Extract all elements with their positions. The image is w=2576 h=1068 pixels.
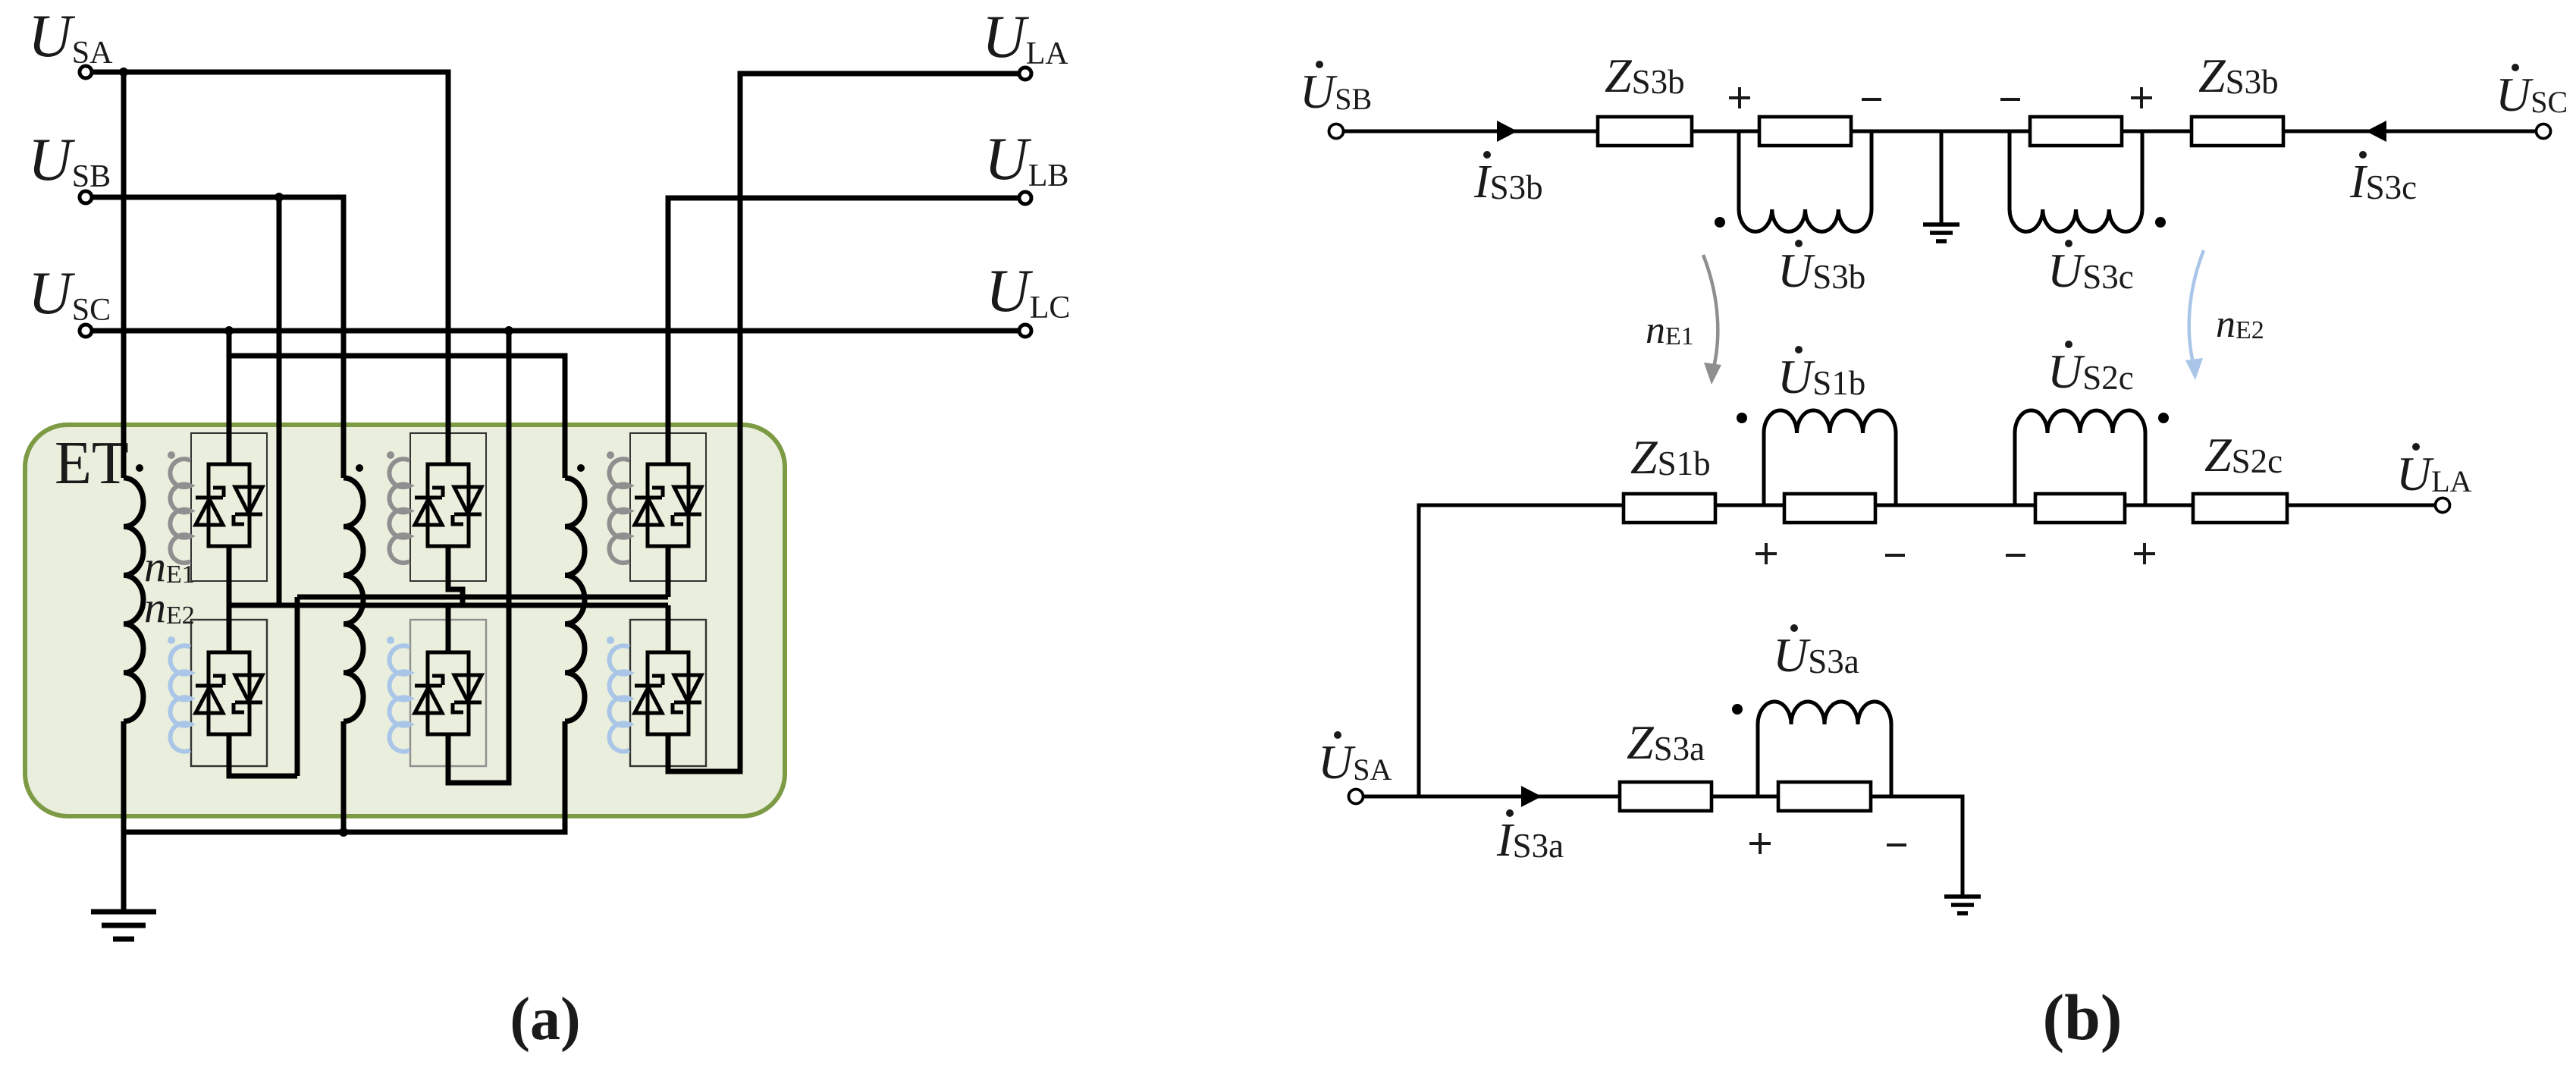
label USC (panel b) [2496,64,2568,121]
polarity sign minus ES3a [1887,843,1906,847]
transformer T3a secondary winding nE1 (gray) [609,459,629,563]
svg-text:USB: USB [28,127,111,194]
transformer T2a primary winding [344,478,363,721]
junction ground bus T2a [339,828,348,837]
label US3c [2047,240,2134,297]
inductor US3a winding [1758,702,1891,796]
source element ES3b box [1759,117,1851,146]
wire ES3c to ZS3b right [2122,130,2192,133]
coupling arrow nE2 [2185,250,2204,380]
source element ES3a box [1778,782,1871,811]
svg-text:US3c: US3c [2047,243,2134,297]
svg-text:ZS3a: ZS3a [1627,715,1705,769]
svg-text:US2c: US2c [2047,344,2134,398]
svg-text:IS3c: IS3c [2349,156,2417,208]
polarity dot nE2 T1a [168,636,175,644]
transformer T3a secondary winding nE2 (blue) [610,646,629,751]
transformer unit T2a lower module box [410,620,486,766]
terminal ULA (panel b) [2436,498,2450,513]
polarity dot US3c [2155,217,2166,228]
junction USA-primary [119,68,128,77]
terminal ULC [1019,325,1031,337]
terminal USC (panel b) [2537,124,2551,139]
wire USB to ZS3b [1344,130,1598,133]
source element ES3c box [2030,117,2122,146]
label IS3b [1473,151,1543,208]
svg-text:nE1: nE1 [1646,309,1694,352]
resistor ZS3a [1620,782,1712,811]
svg-text:nE2: nE2 [2216,303,2264,346]
terminal USA [80,66,92,78]
polarity sign minus ES3b [1862,98,1881,101]
svg-text:USA: USA [1318,735,1392,789]
transformer unit T3a lower module box [630,620,706,766]
polarity dot primary T2a [356,464,363,472]
inductor US3b winding [1739,131,1872,231]
terminal USB (panel b) [1329,124,1344,139]
polarity sign minus ES3c [2000,98,2020,101]
svg-text:IS3b: IS3b [1473,156,1543,208]
wire net ULA: load A riser from column 3 lower [668,74,1019,771]
inductor US2c winding [2015,410,2145,505]
wire ES1b to ES2c [1875,504,2035,507]
polarity dot primary T3a [577,464,585,472]
resistor ZS2c [2193,494,2287,523]
transformer T2a secondary winding nE1 (gray) [389,459,409,563]
current arrow IS3a [1521,786,1542,807]
label US3b [1777,240,1865,297]
ground symbol (panel b bottom) [1944,897,1981,913]
transformer T1a secondary winding nE1 (gray) [170,459,190,563]
svg-text:ZS2c: ZS2c [2204,428,2283,482]
terminal USA (panel b) [1349,790,1363,804]
wire net USC/ULC: source C through to load C [92,331,1019,783]
coupling arrow nE1 [1703,255,1721,385]
ET electronic transformer enclosure [25,425,785,816]
label IS3c [2349,151,2417,208]
wire ZS2c to ULA [2287,504,2436,507]
source element ES2c box [2035,494,2125,523]
polarity sign plus ES3b [1729,87,1750,108]
terminal ULA [1019,68,1031,80]
wire ZS3b to ES3b [1692,130,1759,133]
svg-text:ZS3b: ZS3b [1605,49,1685,102]
thyristor pair VT3 (upper, column 2) [415,464,482,546]
label USB (panel b) [1300,61,1372,118]
transformer T1a secondary winding nE2 (blue) [171,646,190,751]
wire USA to ZS3a [1363,795,1620,799]
svg-text:USC: USC [2496,68,2568,121]
label ULA (panel b) [2396,443,2472,501]
junction USC riser [504,326,513,335]
transformer unit T2a upper module box [410,433,486,581]
polarity dot nE1 T3a [607,451,614,459]
thyristor pair VT1 (upper, column 1) [196,464,262,546]
label US3a [1773,624,1859,682]
svg-text:USB: USB [1300,64,1372,118]
inductor US1b winding [1764,410,1896,505]
transformer unit T1a lower module box [191,620,267,766]
polarity dot nE1 T1a [168,451,175,459]
polarity dot US1b [1737,413,1747,423]
source element ES1b box [1784,494,1875,523]
polarity dot US3b [1715,217,1725,228]
wire ZS3a to ES3a [1712,795,1778,799]
svg-text:ULA: ULA [2396,447,2472,501]
wire riser USA to ZS1b [1419,505,1624,796]
thyristor pair VT2 (lower, column 1) [196,652,262,734]
label IS3a [1496,809,1564,866]
transformer T3a primary winding [565,478,585,721]
polarity sign plus ES3a [1749,833,1771,854]
svg-text:ULC: ULC [986,258,1070,325]
polarity dot nE2 T2a [387,636,394,644]
polarity sign minus ES1b [1885,554,1905,557]
polarity dot nE1 T2a [387,451,394,459]
svg-text:ZS1b: ZS1b [1630,430,1711,484]
terminal USC [80,325,92,337]
svg-text:ULB: ULB [984,126,1068,193]
terminal USB [80,191,92,203]
svg-text:ULA: ULA [982,4,1068,71]
ground symbol (panel a) [91,832,156,939]
wire net ULB: load B to thyristor column 3 [668,198,1019,464]
transformer T2a secondary winding nE2 (blue) [390,646,409,751]
inductor US3c winding [2010,131,2142,231]
wire ES3b to ground [1851,131,2030,223]
resistor ZS3b (left) [1598,117,1692,146]
label US1b [1777,346,1865,404]
current arrow IS3b [1497,121,1517,142]
terminal ULB [1019,192,1031,204]
svg-text:(a): (a) [510,986,580,1053]
wire ZS1b to ES1b [1715,504,1784,507]
svg-text:IS3a: IS3a [1496,815,1564,866]
svg-text:USA: USA [28,3,113,71]
label US2c [2047,341,2134,398]
thyristor pair VT6 (lower, column 3) [635,652,701,734]
transformer T1a primary winding [124,478,143,721]
svg-text:ET: ET [55,430,129,497]
polarity sign minus ES2c [2006,554,2025,557]
polarity dot US2c [2158,413,2169,423]
resistor ZS1b [1624,494,1715,523]
transformer unit T1a upper module box [191,433,267,581]
thyristor pair VT5 (upper, column 3) [635,464,701,546]
polarity dot primary T1a [136,464,143,472]
wire ground bus of ET primaries [124,721,565,832]
wire net USB: source B to primary T2a and lower bus [92,197,344,605]
wire bus A (inter-module link upper) [229,546,668,776]
wire ES2c to ZS2c [2125,504,2193,507]
current arrow IS3c [2366,121,2386,142]
svg-text:ZS3b: ZS3b [2198,49,2279,102]
resistor ZS3b (right) [2192,117,2283,146]
polarity sign plus ES2c [2134,543,2155,564]
junction USC column1 [224,326,234,335]
svg-text:US3b: US3b [1777,243,1865,297]
polarity sign plus ES1b [1756,543,1777,564]
svg-text:(b): (b) [2042,981,2122,1054]
wire net USA: source A to primary T1a and thyristor column 2 [92,72,448,478]
transformer unit T3a upper module box [630,433,706,581]
junction USB-bus [275,193,284,202]
svg-text:USC: USC [28,260,111,328]
wire bus B (inter-module link lower) [229,546,668,652]
ground symbol (panel b top) [1923,225,1959,241]
svg-text:US1b: US1b [1777,350,1865,404]
wire ZS3b right to USC [2283,130,2537,133]
polarity dot US3a [1732,704,1743,715]
thyristor pair VT4 (lower, column 2) [415,652,482,734]
label USA (panel b) [1318,731,1392,789]
wire ES3a to ground [1871,796,1963,895]
polarity sign plus ES3c [2131,87,2152,108]
svg-text:US3a: US3a [1773,628,1859,682]
polarity dot nE2 T3a [607,636,614,644]
